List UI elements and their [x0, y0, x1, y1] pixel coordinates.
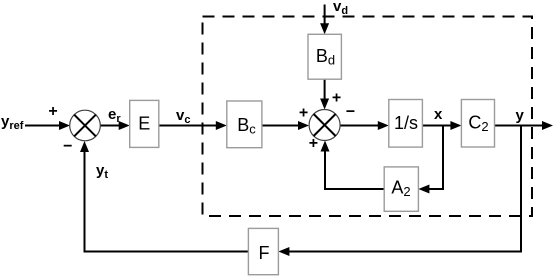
svg-text:+: +	[48, 103, 57, 120]
svg-text:E: E	[138, 114, 150, 134]
svg-text:−: −	[346, 104, 355, 121]
svg-text:y: y	[516, 107, 525, 124]
svg-text:+: +	[332, 89, 341, 106]
svg-text:−: −	[63, 138, 72, 155]
svg-text:+: +	[299, 105, 308, 122]
svg-text:1/s: 1/s	[394, 113, 418, 133]
svg-text:x: x	[434, 106, 443, 123]
svg-text:+: +	[309, 135, 318, 152]
svg-text:F: F	[259, 243, 270, 263]
